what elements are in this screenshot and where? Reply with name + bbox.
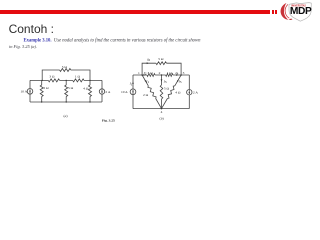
svg-text:4 Ω: 4 Ω <box>83 87 89 91</box>
resistor 2 ohm (a) <box>41 80 43 102</box>
svg-text:10 A: 10 A <box>121 90 128 94</box>
svg-text:4: 4 <box>177 72 179 76</box>
resistor 4 ohm (a) <box>89 80 91 102</box>
svg-text:2 Ω: 2 Ω <box>143 93 149 97</box>
svg-text:2 Ω: 2 Ω <box>43 86 49 90</box>
resistor 2 ohm diagonal (b) <box>142 75 161 109</box>
logo text UNIVERSITAS <box>291 3 306 7</box>
svg-text:5 Ω: 5 Ω <box>158 57 164 61</box>
wire: left branch with 10A source (b) <box>132 75 134 109</box>
svg-text:1: 1 <box>131 82 133 86</box>
wire: circuit (a) main top node line <box>30 79 102 81</box>
wire: top 5-ohm branch (b) <box>142 63 181 75</box>
svg-text:2 A: 2 A <box>193 90 198 94</box>
svg-text:1 Ω: 1 Ω <box>167 71 173 75</box>
wire: circuit (b) main node line <box>133 74 189 76</box>
svg-text:2 A: 2 A <box>105 90 110 94</box>
node dots (b) <box>141 74 143 76</box>
example text block (scanned textbook excerpt) <box>9 38 219 50</box>
svg-text:6: 6 <box>148 58 150 62</box>
current source 10A (a) <box>27 89 33 95</box>
resistor 4 ohm diagonal (b) <box>162 75 182 109</box>
current source 2A (a) <box>101 80 103 102</box>
red bar dash 2 <box>275 10 277 14</box>
resistor 1 ohm (b) <box>166 74 173 77</box>
resistor 5 ohm top (b) <box>156 62 167 65</box>
title Contoh : <box>9 22 54 36</box>
svg-text:Fig. 3.25: Fig. 3.25 <box>102 119 115 123</box>
current arrows (b) <box>147 62 149 64</box>
circuits figure <box>0 0 320 180</box>
wire: bottom rail (b) <box>133 108 189 110</box>
svg-text:1: 1 <box>138 71 140 75</box>
svg-text:5: 5 <box>180 80 182 84</box>
svg-text:2: 2 <box>159 71 161 75</box>
svg-text:3 Ω: 3 Ω <box>49 75 55 79</box>
current source 10A (b) <box>130 89 136 95</box>
svg-text:1: 1 <box>147 80 149 84</box>
svg-text:1 Ω: 1 Ω <box>75 75 81 79</box>
resistor 3 ohm (b) <box>147 74 155 77</box>
svg-text:10 A: 10 A <box>20 89 27 93</box>
logo universitas MDP <box>276 0 320 26</box>
wire: top 5-ohm branch (a) <box>42 70 90 80</box>
svg-text:4 Ω: 4 Ω <box>175 91 181 95</box>
logo shield outline <box>289 3 311 22</box>
red bar dash 1 <box>272 10 275 14</box>
resistor 5 ohm top (a) <box>60 69 71 72</box>
svg-text:(b): (b) <box>160 116 165 120</box>
wire: left branch (a) <box>29 80 31 102</box>
svg-text:3: 3 <box>183 71 185 75</box>
wire: right branch with 2A source (b) <box>188 75 190 109</box>
svg-text:5 Ω: 5 Ω <box>62 65 68 69</box>
red header bar <box>0 10 270 14</box>
svg-text:5 Ω: 5 Ω <box>164 86 170 90</box>
svg-text:(a): (a) <box>63 114 68 118</box>
resistor 1 ohm (a) <box>73 79 84 82</box>
resistor 3 ohm (a) <box>48 79 59 82</box>
current source 2A (b) <box>187 90 192 95</box>
node dots (a) <box>42 80 43 81</box>
svg-text:2: 2 <box>145 72 147 76</box>
wire: bottom rail (a) <box>30 101 102 103</box>
resistor 5 ohm vertical (b) <box>161 75 163 109</box>
svg-text:3: 3 <box>165 80 167 84</box>
svg-text:3 Ω: 3 Ω <box>148 71 154 75</box>
resistor 5 ohm mid (a) <box>65 80 67 102</box>
logo red swirl <box>281 3 289 20</box>
svg-text:4: 4 <box>161 110 163 114</box>
svg-text:5 Ω: 5 Ω <box>68 86 74 90</box>
